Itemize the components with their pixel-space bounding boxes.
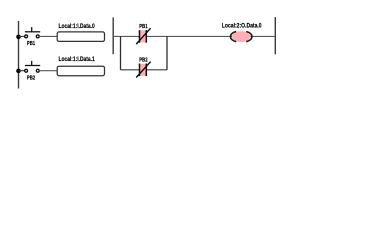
svg-text:PB1: PB1 (27, 41, 35, 47)
input box Local:1:I.Data.0 (57, 32, 104, 42)
svg-text:PB2: PB2 (27, 76, 35, 82)
svg-text:Local:1:I.Data.1: Local:1:I.Data.1 (59, 56, 96, 63)
branch bottom wire right (146, 69, 167, 71)
wire contact PB1 to coil (146, 35, 232, 37)
wire coil to right rail (251, 35, 276, 37)
XIO contact PB2 (highlighted) (136, 62, 150, 78)
wire rail to PB1 (19, 35, 25, 37)
wire PB2 to input box (39, 70, 57, 72)
branch bottom wire left (121, 69, 140, 71)
svg-text:Local:2:O.Data.0: Local:2:O.Data.0 (222, 23, 262, 30)
pushbutton PB2 actuator (25, 61, 40, 66)
svg-text:Local:1:I.Data.0: Local:1:I.Data.0 (59, 23, 96, 30)
pushbutton PB1 actuator (25, 27, 40, 32)
wire PB1 to input box (39, 35, 57, 37)
pushbutton PB1 contact circles (25, 35, 40, 38)
output coil OTE (highlighted) (230, 31, 252, 42)
input box Local:1:I.Data.1 (57, 66, 104, 76)
branch right vertical wire (166, 36, 168, 69)
left power rail network 1 (18, 21, 20, 89)
wire rail to PB2 (19, 70, 25, 72)
left power rail network 2 (112, 17, 114, 54)
svg-text:PB2: PB2 (139, 58, 147, 64)
right power rail network 2 (274, 17, 276, 54)
node junction dot rung 1 (16, 35, 21, 40)
wire rail to contact PB1 (113, 35, 139, 37)
XIO contact PB1 (highlighted) (136, 28, 150, 44)
branch left vertical wire (120, 36, 122, 69)
node junction dot rung 2 (16, 69, 21, 74)
svg-text:PB1: PB1 (139, 24, 147, 30)
pushbutton PB2 contact circles (25, 69, 40, 72)
